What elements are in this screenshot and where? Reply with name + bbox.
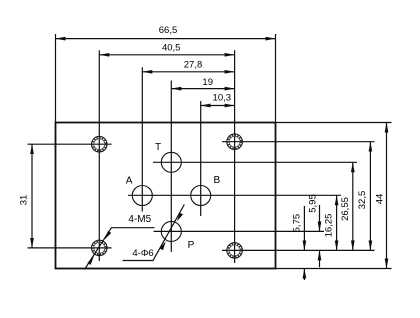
- dimension line 5,95 upper segment: [319, 205, 321, 231]
- horizontal centerline ports A-B row: [128, 194, 341, 196]
- svg-text:T: T: [155, 142, 161, 153]
- dimension line 40,5: [99, 54, 234, 56]
- leader 4-Φ6: underline and diagonal through port P: [123, 205, 185, 261]
- left edge extension above plate for 66,5: [55, 34, 57, 123]
- vertical centerline port A column: [141, 67, 143, 211]
- dimension line 5,95 lower segment: [319, 250, 321, 267]
- vertical centerline right mounting holes column: [234, 50, 236, 263]
- vertical centerline port B column: [200, 101, 202, 216]
- leader 4-Φ6 arrowhead at P lower-left edge: [160, 241, 166, 250]
- dimension line 16,25: [336, 195, 338, 250]
- dimension line 31 (left): [31, 144, 33, 248]
- dimension line 32,5: [369, 142, 371, 251]
- leader 4-M5 arrowhead at hole lower-left edge: [87, 256, 94, 265]
- svg-text:4-M5: 4-M5: [128, 214, 151, 225]
- svg-text:27,8: 27,8: [184, 59, 203, 70]
- leader 4-M5: underline and diagonal through bottom-left hole: [85, 228, 155, 270]
- vertical centerline T/P column: [170, 81, 172, 253]
- port hole T: [161, 152, 181, 172]
- mounting hole top-right (M5 tapped, hatched ring): [227, 134, 243, 150]
- dimension line 5,75 lower segment: [303, 269, 305, 281]
- dimension line 26,55: [352, 162, 354, 250]
- leader 4-Φ6 arrowhead at P upper-right edge: [177, 213, 183, 222]
- svg-text:66,5: 66,5: [159, 25, 178, 36]
- mounting hole bottom-right (M5 tapped, hatched ring): [227, 243, 243, 259]
- svg-text:4-Φ6: 4-Φ6: [132, 248, 153, 259]
- horizontal centerline top-left mounting hole: [28, 143, 112, 145]
- horizontal centerline top-right mounting hole: [222, 141, 375, 143]
- svg-text:19: 19: [202, 77, 213, 88]
- plate outline: [56, 123, 276, 269]
- svg-text:A: A: [126, 176, 133, 187]
- vertical centerline left mounting holes column: [98, 50, 100, 261]
- svg-text:5,95: 5,95: [308, 194, 319, 213]
- right edge extension above plate for 66,5: [275, 34, 277, 123]
- leader 4-M5 arrowhead at hole upper-right edge: [105, 231, 112, 240]
- horizontal centerline port P row: [154, 230, 325, 232]
- svg-text:40,5: 40,5: [162, 43, 181, 54]
- svg-text:26,55: 26,55: [340, 197, 351, 221]
- horizontal centerline bottom-left mounting hole: [28, 247, 112, 249]
- svg-text:5,75: 5,75: [291, 214, 302, 233]
- svg-text:32,5: 32,5: [357, 191, 368, 210]
- port hole B: [191, 186, 211, 206]
- bottom edge extension line to 44 dim: [276, 268, 392, 270]
- top edge extension line to 44 dim: [276, 122, 392, 124]
- dimension line 5,75 upper segment: [303, 206, 305, 250]
- mounting hole top-left (M5 tapped, hatched ring): [92, 136, 108, 152]
- dimension line 27,8: [142, 71, 234, 73]
- svg-text:44: 44: [375, 194, 386, 205]
- svg-text:10,3: 10,3: [213, 92, 232, 103]
- dimension line 19: [171, 88, 234, 90]
- svg-text:B: B: [214, 175, 221, 186]
- svg-text:16,25: 16,25: [323, 214, 334, 238]
- svg-text:31: 31: [19, 195, 30, 206]
- dimension line 44: [386, 123, 388, 269]
- port hole A: [132, 186, 152, 206]
- dimension line 10,3: [201, 105, 235, 107]
- horizontal centerline bottom-right mounting hole: [222, 249, 375, 251]
- port hole P: [161, 221, 181, 241]
- dimension line 66,5: [56, 38, 276, 40]
- svg-text:P: P: [188, 240, 195, 251]
- horizontal centerline port T row: [153, 161, 357, 163]
- mounting hole bottom-left (M5 tapped, hatched ring): [92, 240, 108, 256]
